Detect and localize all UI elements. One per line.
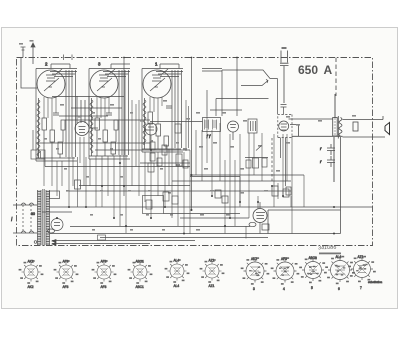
stage 1 resistor R3 — [58, 142, 63, 154]
wire tuning vertical — [191, 58, 193, 211]
resistor R12 — [150, 142, 155, 150]
stage 2 can bottom — [89, 156, 130, 159]
svg-text:341086: 341086 — [318, 245, 337, 252]
V9 cathode loop — [249, 222, 256, 226]
V8 electrodes — [54, 223, 60, 226]
stage 3 inner wires — [150, 124, 166, 149]
resistor R13 — [150, 153, 155, 161]
tiny label specks — [44, 100, 356, 231]
svg-text:AF3: AF3 — [63, 285, 69, 289]
stage 2 electrode leads — [97, 97, 109, 130]
mains switch wires — [13, 205, 37, 233]
dropper box — [75, 180, 81, 189]
resistor R29 — [262, 158, 267, 167]
resistor R17 — [176, 154, 182, 166]
bus y233.5 — [50, 233, 268, 235]
base B8 — [274, 257, 297, 291]
svg-text:AL4: AL4 — [174, 259, 180, 263]
tone cap C6 — [327, 144, 335, 155]
C4 label — [282, 47, 287, 49]
svg-text:AF3: AF3 — [63, 260, 69, 264]
base B4 — [131, 260, 150, 290]
svg-text:ABC1: ABC1 — [309, 256, 318, 260]
base B6 — [203, 259, 222, 289]
bus y171 — [140, 162, 190, 164]
wire osc bottom — [207, 90, 269, 116]
stage 1 resistor R1 — [42, 118, 47, 130]
K4 windings — [281, 138, 286, 187]
base B11 — [351, 255, 383, 290]
core — [337, 116, 339, 139]
V8 cathode loop — [48, 229, 55, 233]
stage 1 electrode leads — [44, 97, 56, 130]
svg-text:AF3: AF3 — [281, 257, 287, 261]
primary winding — [333, 118, 338, 137]
svg-text:5: 5 — [311, 286, 313, 290]
svg-text:7: 7 — [360, 286, 362, 290]
bus y181 — [172, 180, 291, 182]
stage 2 inner wires — [97, 130, 116, 156]
inner dashed partition near 650A label — [335, 58, 337, 97]
wire links stage1-2 — [36, 97, 203, 144]
secondary winding — [339, 118, 342, 137]
tone cap C7 — [327, 156, 335, 167]
resistor R28 — [253, 158, 259, 168]
stage 3 can verticals — [172, 70, 182, 148]
svg-text:ABC1: ABC1 — [136, 285, 145, 289]
IF transformer T2 — [203, 118, 221, 140]
resistor R14 — [148, 163, 154, 172]
V9 electrodes — [256, 213, 265, 219]
antenna labels — [19, 40, 34, 45]
feed wires — [289, 119, 343, 136]
IF transformer T3 — [248, 119, 257, 133]
stage 2 can top steps — [89, 64, 130, 77]
stage 1 inner wires — [44, 130, 63, 158]
stage 2 resistor R7 — [111, 142, 116, 154]
tube V4 electrodes — [79, 127, 86, 133]
stage 2 cap C2 — [106, 113, 112, 115]
svg-text:AL4: AL4 — [336, 255, 342, 259]
stage 2 resistor R8 — [114, 120, 118, 130]
resistor R21 — [272, 186, 278, 196]
base B9 — [302, 256, 324, 290]
resistor R26 — [222, 196, 228, 203]
resistor R22 — [283, 189, 289, 197]
svg-text:3: 3 — [253, 287, 255, 291]
pot R19 — [146, 200, 152, 209]
bus y150 — [95, 149, 190, 151]
bus y237.5 — [52, 238, 268, 244]
stage 1 resistor R2 — [50, 130, 55, 142]
tube V1 electrodes — [44, 69, 62, 91]
stage 3 electrode leads — [150, 97, 162, 124]
svg-text:AL4: AL4 — [174, 284, 180, 288]
vertical drops left half — [44, 100, 190, 234]
svg-text:AF3: AF3 — [101, 260, 107, 264]
base B5 — [168, 259, 187, 289]
wire AVC vertical — [123, 58, 125, 197]
svg-text:AK2: AK2 — [251, 257, 257, 261]
base B1 — [22, 260, 41, 290]
cap C8 — [281, 105, 287, 115]
resistor R24 — [163, 192, 169, 201]
svg-text:30: 30 — [31, 212, 35, 216]
svg-text:6: 6 — [338, 287, 340, 291]
resistor R15 — [157, 158, 162, 166]
resistor R25 — [172, 196, 178, 204]
trimmer cap C4 — [280, 51, 289, 104]
svg-text:AZ1: AZ1 — [209, 259, 215, 263]
border stub b — [71, 55, 73, 61]
svg-text:AK2: AK2 — [28, 285, 34, 289]
bus y191 — [69, 190, 291, 192]
svg-text:650: 650 — [298, 63, 318, 77]
tube V2 envelope — [90, 70, 118, 98]
base B7 — [244, 257, 267, 291]
heater arrows — [52, 240, 56, 246]
stage 1 resistor R4 — [61, 120, 65, 130]
bus y213.5 — [164, 213, 241, 215]
tube V6 — [228, 121, 239, 132]
stage 3 resistor R10 — [156, 124, 161, 136]
svg-text:AK2: AK2 — [28, 260, 34, 264]
antenna terminal 2 — [31, 43, 35, 64]
tube V6 electrodes — [230, 125, 236, 141]
pin number specks — [19, 256, 376, 285]
stage 2 coil winding — [90, 100, 93, 153]
T1 core — [43, 189, 44, 246]
stage 1 can verticals — [66, 70, 76, 157]
output cage box — [268, 137, 341, 234]
border stub a — [63, 55, 65, 61]
V4 top wires — [77, 96, 89, 126]
stage 3 resistor R9 — [148, 112, 153, 124]
bus y226 — [70, 226, 250, 228]
svg-text:AZ1: AZ1 — [358, 255, 364, 259]
stage 3 can top steps — [142, 64, 183, 77]
tube V3 electrodes — [150, 69, 168, 91]
svg-text:AZ1: AZ1 — [209, 284, 215, 288]
stage 3 cap C3 — [166, 106, 172, 108]
loudspeaker LS — [385, 123, 390, 135]
detector coil can K4 — [278, 115, 292, 138]
stage 3 coil winding — [143, 100, 146, 145]
fuse box — [50, 191, 60, 199]
base B2 — [57, 260, 76, 290]
svg-text:AF3: AF3 — [101, 285, 107, 289]
stage 1 cap C1 — [53, 113, 59, 115]
base B3 — [95, 260, 114, 290]
detector load cluster — [245, 146, 268, 169]
svg-text:ABC1: ABC1 — [136, 260, 145, 264]
tube V3 envelope — [143, 70, 171, 98]
wire drops — [44, 100, 190, 234]
resistor R16 — [162, 145, 167, 155]
resistor R23 — [286, 187, 291, 195]
tube V1 envelope — [37, 70, 65, 98]
stage 1 can left wall — [36, 69, 39, 162]
svg-text:substitution: substitution — [368, 280, 383, 284]
output tube V9 — [253, 209, 267, 223]
tube V2 electrodes — [97, 69, 115, 91]
AVC dashed feed — [271, 138, 273, 182]
stage 1 coil winding — [37, 100, 40, 156]
stage 3 resistor R11 — [164, 136, 169, 146]
resistor R20 — [215, 190, 221, 198]
mains transformer T1 primary winding — [38, 190, 42, 245]
rectifier tube V8 — [51, 219, 63, 231]
stage 3 can bottom — [142, 149, 183, 152]
cage top wire — [190, 177, 240, 207]
stage 2 can verticals — [119, 70, 129, 155]
cluster link — [245, 157, 268, 159]
output transformer T4 — [289, 94, 386, 182]
stage 2 resistor R6 — [103, 130, 108, 142]
AF coupling cluster — [146, 124, 188, 209]
wire top links — [202, 69, 222, 72]
bus y185.5 — [79, 185, 190, 187]
switch link dashed — [23, 205, 31, 233]
stage 3 can left wall — [142, 69, 145, 153]
small box wavetrap — [31, 130, 45, 159]
stage 1 can top steps — [36, 64, 77, 77]
HT vertical — [334, 94, 335, 182]
switch toggles — [21, 203, 34, 233]
pot arrow — [256, 146, 262, 151]
wire osc vertical — [236, 58, 238, 117]
caption specks above B10 — [249, 253, 368, 277]
tube V5 electrodes — [148, 127, 154, 130]
T1 secondary winding — [46, 190, 50, 245]
wires to speaker — [343, 116, 386, 137]
resistor R18 — [183, 160, 188, 168]
bus y218 — [180, 217, 249, 219]
stage 2 resistor R5 — [95, 118, 100, 130]
bus y175 top of cage — [190, 174, 304, 176]
tuning gang arm 1 — [222, 70, 278, 116]
resistor R30 — [175, 124, 181, 133]
base B10 — [328, 255, 352, 291]
mid row tubes — [36, 96, 289, 182]
label box 110 — [98, 235, 106, 240]
bus y207 — [49, 206, 373, 208]
stage 2 can left wall — [89, 69, 92, 160]
schematic frame (dash-dot border) — [17, 58, 373, 246]
tube V5 — [145, 123, 157, 135]
stage 1 can bottom — [36, 158, 77, 161]
bus y212 — [42, 211, 72, 213]
T1 winding shade — [38, 190, 42, 245]
vertical drops right half — [196, 116, 304, 239]
svg-text:A: A — [324, 63, 333, 77]
terminal dot — [34, 241, 37, 244]
V9 grid stub — [259, 202, 261, 234]
output cage components — [215, 186, 291, 234]
AF box — [143, 196, 164, 214]
oscillator / tuning section — [124, 47, 292, 210]
tube V7 electrodes — [281, 124, 288, 130]
tube V7 (detector) — [279, 121, 289, 131]
tube V4 (triode) — [75, 122, 89, 136]
tuning gang arm 2 — [241, 80, 268, 86]
resistor R27 — [246, 160, 251, 168]
V9 anode box — [262, 224, 269, 230]
bus y166.5 — [45, 166, 190, 168]
svg-text:4: 4 — [283, 287, 285, 291]
antenna terminal 1 — [21, 47, 38, 88]
cap C5 — [353, 122, 358, 131]
